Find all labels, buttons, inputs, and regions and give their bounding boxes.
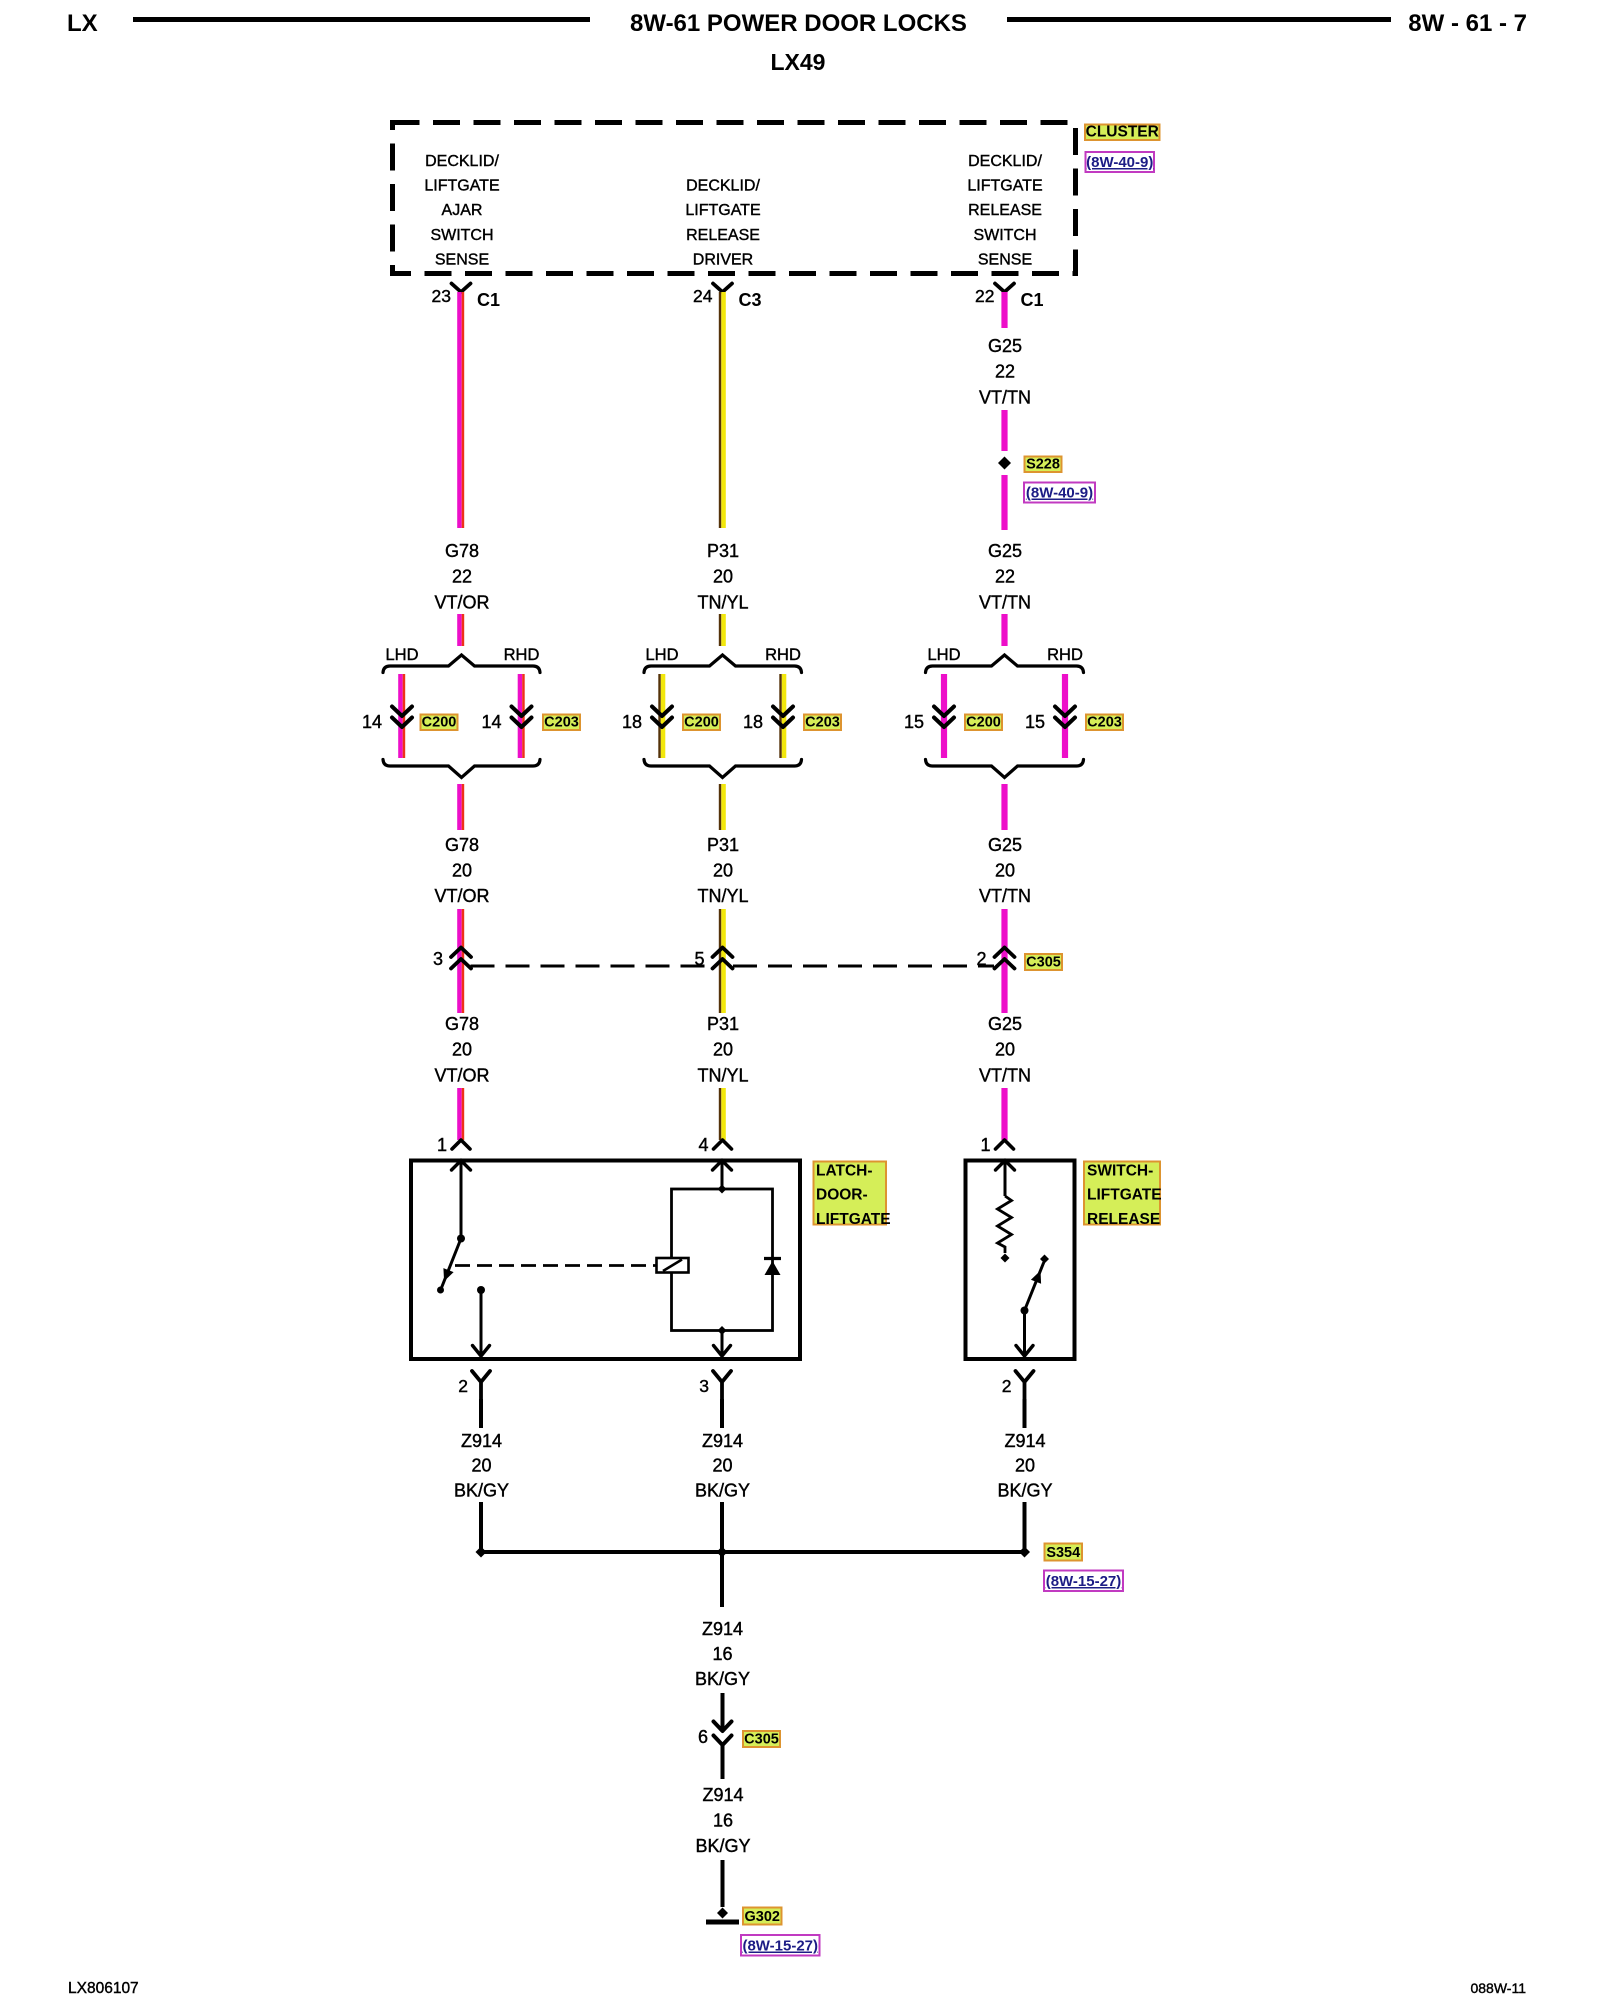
svg-text:18: 18 <box>743 712 763 732</box>
svg-text:VT/TN: VT/TN <box>979 1065 1031 1085</box>
svg-text:BK/GY: BK/GY <box>695 1669 750 1689</box>
svg-text:LX49: LX49 <box>771 49 826 75</box>
svg-text:G25: G25 <box>988 835 1022 855</box>
svg-text:(8W-40-9): (8W-40-9) <box>1086 154 1153 171</box>
svg-text:VT/OR: VT/OR <box>434 1065 489 1085</box>
svg-text:BK/GY: BK/GY <box>454 1480 509 1500</box>
svg-text:18: 18 <box>622 712 642 732</box>
svg-text:SENSE: SENSE <box>435 251 489 268</box>
svg-text:22: 22 <box>995 362 1015 382</box>
svg-text:VT/TN: VT/TN <box>979 886 1031 906</box>
svg-text:P31: P31 <box>707 835 739 855</box>
svg-text:VT/TN: VT/TN <box>979 592 1031 612</box>
svg-text:LHD: LHD <box>645 646 678 664</box>
svg-text:RELEASE: RELEASE <box>686 227 760 244</box>
svg-text:C203: C203 <box>805 715 840 731</box>
svg-text:C305: C305 <box>1026 955 1061 971</box>
svg-text:RELEASE: RELEASE <box>1087 1211 1160 1228</box>
svg-text:C203: C203 <box>544 715 579 731</box>
svg-text:15: 15 <box>904 712 924 732</box>
svg-text:20: 20 <box>452 1040 472 1060</box>
svg-text:TN/YL: TN/YL <box>697 886 748 906</box>
svg-text:Z914: Z914 <box>1004 1431 1045 1451</box>
svg-text:VT/OR: VT/OR <box>434 592 489 612</box>
svg-text:22: 22 <box>452 567 472 587</box>
svg-text:20: 20 <box>471 1456 491 1476</box>
svg-text:DRIVER: DRIVER <box>693 251 753 268</box>
svg-text:23: 23 <box>432 286 451 306</box>
svg-text:P31: P31 <box>707 541 739 561</box>
svg-text:P31: P31 <box>707 1014 739 1034</box>
svg-text:RHD: RHD <box>504 646 540 664</box>
svg-text:SWITCH: SWITCH <box>973 227 1036 244</box>
svg-text:C200: C200 <box>966 715 1001 731</box>
svg-text:CLUSTER: CLUSTER <box>1086 124 1159 141</box>
svg-text:1: 1 <box>980 1135 990 1155</box>
svg-text:DECKLID/: DECKLID/ <box>968 153 1042 170</box>
svg-text:8W-61 POWER DOOR LOCKS: 8W-61 POWER DOOR LOCKS <box>630 10 967 37</box>
svg-text:C1: C1 <box>1021 290 1044 310</box>
svg-text:AJAR: AJAR <box>442 202 483 219</box>
svg-text:20: 20 <box>1015 1456 1035 1476</box>
svg-text:LHD: LHD <box>927 646 960 664</box>
svg-text:SENSE: SENSE <box>978 251 1032 268</box>
svg-text:2: 2 <box>1002 1376 1012 1396</box>
svg-text:LIFTGATE: LIFTGATE <box>1087 1187 1162 1204</box>
svg-text:6: 6 <box>698 1727 708 1747</box>
svg-text:BK/GY: BK/GY <box>695 1480 750 1500</box>
svg-text:RHD: RHD <box>1047 646 1083 664</box>
svg-text:G78: G78 <box>445 1014 479 1034</box>
svg-text:G25: G25 <box>988 336 1022 356</box>
svg-text:(8W-15-27): (8W-15-27) <box>1046 1573 1122 1590</box>
svg-text:20: 20 <box>995 861 1015 881</box>
svg-text:088W-11: 088W-11 <box>1470 1980 1526 1996</box>
svg-text:LX: LX <box>67 10 98 37</box>
svg-text:(8W-15-27): (8W-15-27) <box>742 1938 818 1955</box>
svg-text:LIFTGATE: LIFTGATE <box>816 1211 891 1228</box>
svg-text:LIFTGATE: LIFTGATE <box>685 202 760 219</box>
svg-text:20: 20 <box>713 1040 733 1060</box>
svg-text:3: 3 <box>699 1376 709 1396</box>
svg-text:LIFTGATE: LIFTGATE <box>424 178 499 195</box>
svg-text:Z914: Z914 <box>702 1431 743 1451</box>
svg-text:22: 22 <box>975 286 994 306</box>
svg-text:G25: G25 <box>988 541 1022 561</box>
svg-text:C305: C305 <box>744 1732 779 1748</box>
svg-text:20: 20 <box>712 1456 732 1476</box>
svg-text:SWITCH: SWITCH <box>430 227 493 244</box>
svg-text:1: 1 <box>437 1135 447 1155</box>
svg-text:C200: C200 <box>422 715 457 731</box>
svg-text:C3: C3 <box>739 290 762 310</box>
svg-text:20: 20 <box>713 861 733 881</box>
svg-text:VT/OR: VT/OR <box>434 886 489 906</box>
svg-text:15: 15 <box>1025 712 1045 732</box>
svg-text:(8W-40-9): (8W-40-9) <box>1026 485 1093 502</box>
svg-text:DOOR-: DOOR- <box>816 1187 868 1204</box>
svg-text:20: 20 <box>452 861 472 881</box>
svg-text:14: 14 <box>481 712 501 732</box>
svg-text:DECKLID/: DECKLID/ <box>425 153 499 170</box>
svg-text:LX806107: LX806107 <box>68 1980 139 1997</box>
svg-text:TN/YL: TN/YL <box>697 1065 748 1085</box>
svg-text:G78: G78 <box>445 835 479 855</box>
svg-text:RELEASE: RELEASE <box>968 202 1042 219</box>
svg-text:Z914: Z914 <box>702 1785 743 1805</box>
svg-text:8W - 61 - 7: 8W - 61 - 7 <box>1408 10 1527 37</box>
svg-text:S228: S228 <box>1026 457 1060 473</box>
svg-text:20: 20 <box>713 567 733 587</box>
svg-text:VT/TN: VT/TN <box>979 387 1031 407</box>
svg-text:RHD: RHD <box>765 646 801 664</box>
svg-text:LHD: LHD <box>385 646 418 664</box>
svg-text:C200: C200 <box>684 715 719 731</box>
svg-text:BK/GY: BK/GY <box>997 1480 1052 1500</box>
svg-text:Z914: Z914 <box>461 1431 502 1451</box>
svg-text:16: 16 <box>712 1644 732 1664</box>
svg-text:SWITCH-: SWITCH- <box>1087 1163 1153 1180</box>
svg-text:Z914: Z914 <box>702 1619 743 1639</box>
svg-text:BK/GY: BK/GY <box>695 1836 750 1856</box>
svg-text:G302: G302 <box>745 1909 780 1925</box>
svg-text:G25: G25 <box>988 1014 1022 1034</box>
svg-text:2: 2 <box>458 1376 468 1396</box>
svg-text:C203: C203 <box>1087 715 1122 731</box>
svg-text:LIFTGATE: LIFTGATE <box>967 178 1042 195</box>
svg-text:14: 14 <box>362 712 382 732</box>
svg-text:S354: S354 <box>1046 1545 1080 1561</box>
svg-text:16: 16 <box>713 1811 733 1831</box>
svg-text:4: 4 <box>698 1135 708 1155</box>
svg-text:20: 20 <box>995 1040 1015 1060</box>
svg-text:TN/YL: TN/YL <box>697 592 748 612</box>
svg-text:24: 24 <box>693 286 713 306</box>
svg-text:3: 3 <box>433 949 443 969</box>
svg-text:LATCH-: LATCH- <box>816 1163 873 1180</box>
svg-text:C1: C1 <box>477 290 500 310</box>
svg-text:DECKLID/: DECKLID/ <box>686 178 760 195</box>
svg-text:22: 22 <box>995 567 1015 587</box>
svg-text:G78: G78 <box>445 541 479 561</box>
